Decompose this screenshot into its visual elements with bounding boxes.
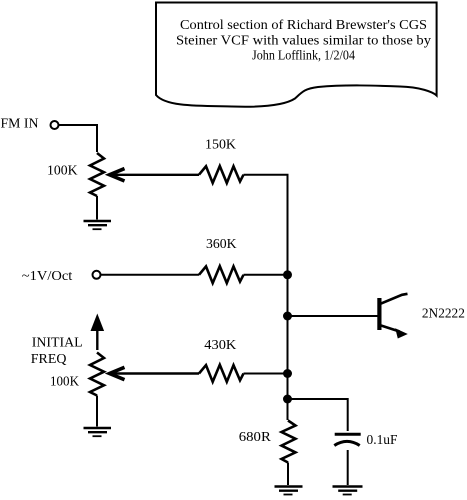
wire FM IN terminal to pot top <box>59 125 97 152</box>
capacitor C1 0.1uF top plate <box>335 433 361 436</box>
transistor emitter lead with arrow <box>381 326 408 339</box>
svg-text:430K: 430K <box>204 338 236 353</box>
resistor 430K zigzag <box>199 365 244 382</box>
resistor 150K zigzag <box>199 166 244 183</box>
FM IN terminal circle <box>51 121 59 129</box>
potentiometer 100K (FM) wiper arrow <box>110 169 200 181</box>
junction node at 360K/bus <box>283 270 292 279</box>
wire bus to transistor base <box>288 315 378 317</box>
svg-text:150K: 150K <box>205 137 236 152</box>
svg-text:Control section of Richard Bre: Control section of Richard Brewster's CG… <box>180 18 427 33</box>
wire 430K to bus <box>244 373 288 375</box>
svg-text:FM IN: FM IN <box>1 117 39 132</box>
~1V/Oct terminal circle <box>93 271 101 279</box>
svg-text:0.1uF: 0.1uF <box>367 433 398 448</box>
capacitor C1 bottom curved plate <box>334 441 359 445</box>
wire junction to cap <box>288 399 348 431</box>
ground (INITIAL FREQ pot) <box>84 428 112 436</box>
callout banner box with wavy bottom <box>156 3 437 107</box>
resistor 680R zigzag <box>282 421 296 463</box>
wire pot to ground <box>96 196 98 220</box>
svg-text:~1V/Oct: ~1V/Oct <box>22 269 73 284</box>
wire bus to 680R <box>287 399 289 420</box>
potentiometer 100K (FM) zigzag body <box>90 153 104 196</box>
ground (cap) <box>333 487 363 495</box>
INITIAL FREQ up arrow <box>91 314 105 351</box>
wire 150K to bus corner <box>244 175 288 275</box>
svg-text:680R: 680R <box>239 430 272 445</box>
resistor 360K zigzag <box>199 266 244 283</box>
wire terminal to 360K <box>101 274 199 276</box>
transistor collector lead <box>381 294 408 304</box>
junction node at cap branch <box>283 395 292 404</box>
svg-text:Steiner VCF with values simila: Steiner VCF with values similar to those… <box>176 33 431 48</box>
wire 360K to bus <box>244 274 288 276</box>
ground (680R) <box>275 487 303 495</box>
svg-text:INITIAL: INITIAL <box>32 335 83 350</box>
svg-text:360K: 360K <box>206 237 237 252</box>
ground (FM pot) <box>84 221 112 229</box>
potentiometer (INITIAL FREQ) wiper arrow <box>110 367 200 379</box>
wire 680R to ground <box>287 463 289 486</box>
wire cap to ground <box>347 450 349 485</box>
svg-text:John Lofflink, 1/2/04: John Lofflink, 1/2/04 <box>252 49 355 64</box>
svg-text:FREQ: FREQ <box>31 352 67 367</box>
wire pot to ground <box>96 396 98 427</box>
junction node at 430K/bus <box>283 369 292 378</box>
svg-text:100K: 100K <box>47 163 78 178</box>
bus wire down <box>287 275 289 399</box>
potentiometer 100K (INITIAL FREQ) zigzag body <box>90 353 104 396</box>
svg-text:2N2222: 2N2222 <box>422 307 465 322</box>
junction node at base wire <box>283 312 292 321</box>
svg-text:100K: 100K <box>50 375 79 390</box>
transistor Q1 2N2222 base bar <box>377 298 381 330</box>
